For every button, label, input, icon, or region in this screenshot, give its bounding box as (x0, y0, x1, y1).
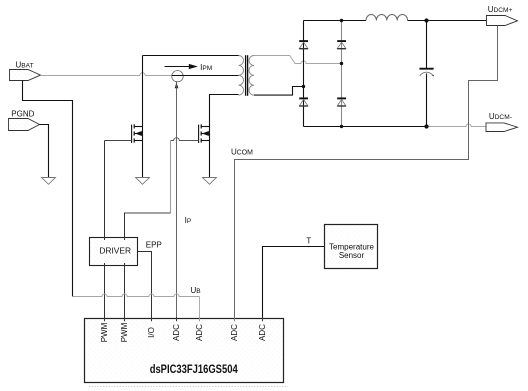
junction node left column middle (302, 85, 305, 88)
wire secondary top to bridge (step down, hop over left column) (254, 56, 342, 64)
diode D4 (bottom right) (337, 98, 346, 106)
junction node bottom capacitor (424, 124, 428, 128)
transistor Q1 (132, 124, 143, 143)
label dsPIC33FJ16GS504 (150, 364, 238, 376)
wire bridge right column (341, 21, 343, 127)
wire inductor to UDCM+ (408, 20, 487, 22)
transistor Q2 (199, 124, 210, 143)
pin label PWM2 (120, 322, 129, 342)
ground PGND (42, 178, 56, 185)
wire bottom rail (304, 126, 427, 128)
svg-text:IPM: IPM (200, 63, 212, 72)
pin label ADC UCOM (230, 324, 239, 341)
label UDCM+ (488, 5, 513, 14)
temperature sensor box (325, 225, 378, 269)
svg-text:UDCM-: UDCM- (489, 112, 512, 121)
svg-text:UDCM+: UDCM+ (488, 5, 513, 14)
svg-text:IP: IP (185, 216, 192, 225)
port UDCM+ (487, 16, 518, 26)
wire UCOM feedback from UDCM+ down (235, 26, 498, 319)
label Temperature Sensor (329, 243, 374, 260)
capacitor C1 wire bottom (426, 74, 428, 127)
wire T sensor to ADC (263, 247, 325, 319)
pin label ADC IP (172, 324, 181, 341)
svg-text:PWM: PWM (100, 322, 109, 342)
svg-text:PGND: PGND (11, 109, 34, 118)
capacitor C1 (419, 69, 433, 77)
wire UB sense with hops (73, 294, 200, 297)
pin label I/O (147, 327, 156, 338)
svg-text:PWM: PWM (120, 322, 129, 342)
wire Q2 gate from driver (125, 141, 171, 214)
label IPM (200, 63, 212, 72)
svg-text:DRIVER: DRIVER (99, 246, 131, 256)
wire UB stub to ADC (199, 297, 201, 319)
svg-text:ADC: ADC (195, 324, 204, 341)
arrow IPM (165, 64, 198, 69)
diode D1 (top left) (299, 41, 308, 49)
svg-text:UB: UB (191, 286, 202, 295)
svg-text:UCOM: UCOM (231, 147, 253, 156)
pin wire ticks inside driver box (105, 237, 125, 267)
diode D2 (top right) (337, 41, 346, 49)
driver box U2 (90, 238, 138, 266)
wire secondary bottom to bridge (254, 87, 304, 96)
wire UBAT sense down-right-down (23, 81, 73, 297)
wire Q1 gate lead (105, 140, 132, 142)
wire Q1 drain/source vertical (142, 56, 144, 178)
label UB (191, 286, 202, 295)
junction node bottom right column (340, 125, 343, 128)
svg-text:ADC: ADC (230, 324, 239, 341)
transformer T1 secondary winding (249, 55, 254, 95)
capacitor C1 wire top (426, 21, 428, 69)
port UDCM- (486, 123, 518, 132)
wire top rail to inductor (304, 20, 367, 22)
wire bottom rail to UDCM- (hop over UCOM line) (427, 124, 487, 127)
pin label ADC UB (195, 324, 204, 341)
wire Q2 drain to transformer (210, 95, 239, 178)
wire top rail primary (Q1 drain to transformer) (143, 55, 239, 57)
svg-text:I/O: I/O (147, 327, 156, 338)
pin label ADC T (258, 324, 267, 341)
wire Q2 gate lead (hop over IP line) (171, 138, 199, 141)
wire UBAT to current sensor (hop over Q1 drain) (41, 73, 172, 76)
IC U1 dsPIC box (85, 319, 284, 383)
wire current sensor to transformer center tap (172, 75, 239, 77)
wire EPP (driver to I/O) (138, 252, 152, 319)
pin wire ticks inside IC box (105, 317, 263, 321)
IC box shadow (89, 386, 288, 388)
junction node top capacitor (424, 18, 428, 22)
junction node right column middle (340, 62, 343, 65)
wire IP sense line down to ADC (176, 81, 178, 318)
inductor L1 (366, 14, 408, 20)
transformer T1 primary winding (239, 55, 244, 95)
svg-text:dsPIC33FJ16GS504: dsPIC33FJ16GS504 (150, 364, 238, 376)
svg-text:Sensor: Sensor (339, 251, 365, 260)
port PGND (9, 119, 40, 131)
label IP (185, 216, 192, 225)
wire bridge left column (303, 21, 305, 127)
label UDCM- (489, 112, 512, 121)
diode D3 (bottom left) (299, 98, 308, 106)
transformer T1 core (246, 55, 248, 96)
wire Q1 gate from driver (104, 141, 106, 319)
pin label PWM1 (100, 322, 109, 342)
svg-text:ADC: ADC (172, 324, 181, 341)
arrow below current sensor (175, 82, 179, 88)
current sensor circle IPM (172, 71, 183, 82)
junction node top right diode column (340, 19, 343, 22)
svg-text:T: T (306, 236, 311, 245)
label T (306, 236, 311, 245)
wire PWM2 driver line (124, 213, 126, 319)
svg-text:EPP: EPP (146, 241, 162, 250)
wire PGND to ground (40, 125, 49, 178)
svg-text:UBAT: UBAT (16, 61, 34, 70)
label DRIVER (99, 246, 131, 256)
label UBAT (16, 61, 34, 70)
svg-text:ADC: ADC (258, 324, 267, 341)
ground Q2 source (203, 178, 217, 185)
label PGND (11, 109, 34, 118)
ground Q1 source (136, 178, 150, 185)
port UBAT (10, 70, 41, 81)
label EPP (146, 241, 162, 250)
label UCOM (231, 147, 253, 156)
